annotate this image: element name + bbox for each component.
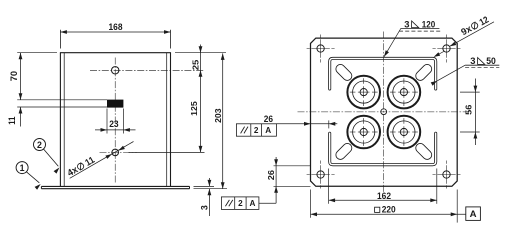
- dimension square 220: [311, 213, 466, 215]
- base flange right end: [189, 186, 191, 188]
- boss 2 inner circle: [393, 81, 415, 103]
- boss 1 inner circle: [353, 81, 375, 103]
- svg-text:2: 2: [238, 199, 243, 208]
- boss 1 crosshair: [358, 91, 370, 93]
- plate outline with chamfered corners: [311, 38, 458, 186]
- corner lug 3 (obround): [334, 142, 354, 162]
- dimension square 220 extension lines: [310, 190, 312, 218]
- flange top extension line: [194, 185, 215, 187]
- boss 2 crosshair: [398, 91, 410, 93]
- balloon 2 leader: [44, 149, 59, 166]
- slot extension lines to the left: [17, 99, 107, 101]
- datum feature A: [466, 207, 481, 221]
- bracket left wall inner (bend) line: [63, 53, 65, 187]
- dimension 70: [20, 53, 22, 100]
- dimension 70 extension line at top: [17, 52, 57, 54]
- base flange bottom edge: [41, 188, 189, 190]
- label 4x dia 11: [65, 154, 96, 178]
- lower bent-wall outline (double line): [329, 132, 437, 166]
- hidden edge dashes under note: [399, 30, 440, 32]
- corner hole 3 of 4x dia 11 pattern: [317, 171, 324, 178]
- label 9x dia 12 text: [459, 14, 490, 38]
- upper bent-wall outline (double line): [329, 57, 437, 90]
- dimension 26 lower (wall to plate bottom) + datum leader: [274, 165, 311, 167]
- dimension 3 flange thickness (outside arrows): [208, 178, 210, 186]
- upper hole in web: [112, 67, 119, 74]
- leader 4x dia 11 to lower hole: [70, 142, 134, 179]
- svg-text:203: 203: [213, 108, 223, 123]
- svg-text:11: 11: [7, 117, 17, 125]
- boss 4 quadrant ticks: [390, 131, 396, 133]
- svg-text:23: 23: [109, 119, 118, 129]
- dimension 56 (outside arrows): [474, 79, 476, 146]
- svg-text:25: 25: [190, 59, 200, 70]
- boss 3 quadrant ticks: [350, 131, 356, 133]
- boss 4 center hole dia 12: [400, 128, 407, 135]
- svg-text:26: 26: [266, 170, 276, 180]
- boss 4 inner circle: [393, 121, 415, 143]
- flange bottom extension line: [194, 188, 228, 190]
- parallelism frame upper //|2|A: [236, 124, 276, 136]
- base flange left end: [40, 186, 42, 188]
- bracket right wall outer line: [170, 52, 172, 186]
- corner hole 2 of 4x dia 11 pattern: [443, 45, 450, 52]
- boss 4 outer circle (thick): [388, 116, 421, 149]
- base flange top edge: [41, 185, 189, 187]
- dimension 23 extension lines: [106, 109, 108, 134]
- boss 1 quadrant ticks: [350, 91, 356, 93]
- center pilot circle: [381, 109, 387, 115]
- svg-text:26: 26: [264, 113, 273, 124]
- bracket top edge: [60, 52, 170, 54]
- corner lug 2 (obround): [414, 63, 434, 83]
- svg-text:220: 220: [382, 204, 396, 215]
- boss 1 outer circle (thick): [347, 76, 380, 109]
- lower hole centerline: [100, 151, 138, 153]
- extension line from top edge to right dims: [175, 52, 226, 54]
- svg-text:3: 3: [470, 55, 475, 66]
- dimension 168 extension lines: [59, 30, 61, 49]
- svg-text:3: 3: [404, 18, 409, 29]
- balloon 1 leader: [26, 172, 39, 183]
- boss 3 crosshair: [358, 131, 370, 133]
- boss 1 center hole dia 12: [360, 89, 367, 96]
- dimension 162 extension lines: [328, 169, 330, 204]
- balloon 2: [34, 139, 46, 151]
- boss 3 inner circle: [353, 121, 375, 143]
- svg-text:1: 1: [20, 163, 25, 173]
- boss 3 center hole dia 12: [360, 128, 367, 135]
- corner hole 4 of 4x dia 11 pattern: [443, 171, 450, 178]
- svg-text:A: A: [265, 126, 271, 135]
- dimension 203: [222, 53, 224, 188]
- boss 3 outer circle (thick): [347, 116, 380, 149]
- svg-text:168: 168: [109, 22, 124, 33]
- horizontal centerline through upper hole: [90, 69, 205, 71]
- vertical centerline of bracket: [114, 58, 116, 184]
- label 9x dia 12 leader: [450, 22, 494, 46]
- bracket left wall outer line: [59, 52, 61, 186]
- svg-text:70: 70: [9, 71, 19, 81]
- dimension 26 upper (plate edge to wall): [276, 123, 337, 125]
- boss 4 crosshair: [398, 131, 410, 133]
- svg-text:A: A: [470, 209, 477, 220]
- parallelism frame bottom //|2|A: [221, 197, 259, 210]
- corner hole 1 of 4x dia 11 pattern: [317, 45, 324, 52]
- boss 2 center hole dia 12: [400, 89, 407, 96]
- leader from frame to datum extension: [259, 202, 276, 204]
- plate vertical centerline: [383, 32, 385, 194]
- slot (section, filled): [107, 100, 123, 108]
- lower mounting hole: [112, 149, 119, 156]
- dimension 168: [60, 31, 170, 33]
- chamfer note 3x120 leader: [384, 29, 401, 57]
- corner lug 4 (obround): [414, 142, 434, 162]
- dimension 162: [329, 199, 437, 201]
- svg-text:3: 3: [199, 205, 209, 210]
- svg-text:2: 2: [254, 126, 259, 135]
- dimension 11 (outside arrows): [20, 107, 22, 127]
- svg-text:A: A: [249, 199, 255, 208]
- bracket right wall inner (bend) line: [166, 53, 168, 187]
- chamfer note 3x50 leader: [437, 65, 465, 81]
- label 9x dia 12 leader second segment through hole: [436, 51, 445, 56]
- extension line at lower hole level: [129, 151, 205, 153]
- balloon 1: [16, 162, 28, 174]
- dimension 23 (outside arrows): [95, 129, 136, 131]
- dimension 56 extension lines: [460, 91, 480, 93]
- svg-text:2: 2: [37, 140, 42, 150]
- svg-text:125: 125: [189, 101, 199, 116]
- svg-text:56: 56: [464, 104, 474, 114]
- dimension 25 and 125 shared line: [200, 45, 202, 153]
- boss 2 quadrant ticks: [390, 91, 396, 93]
- boss 2 outer circle (thick): [388, 76, 421, 109]
- svg-text:162: 162: [377, 191, 391, 202]
- plate horizontal centerline: [298, 111, 470, 113]
- corner lug 1 (obround): [334, 63, 354, 83]
